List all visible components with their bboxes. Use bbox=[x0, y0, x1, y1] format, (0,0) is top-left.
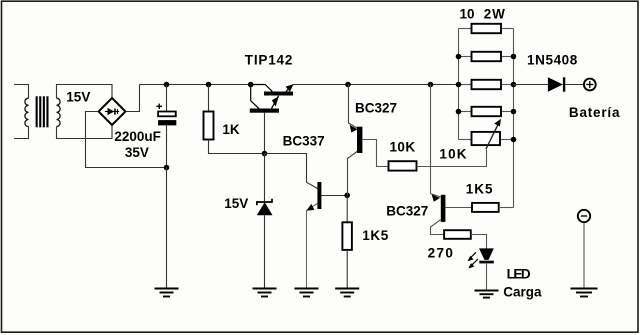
terminal battery plus circle bbox=[584, 79, 596, 91]
transistor Q3 BC327 base bar bbox=[357, 127, 362, 153]
wire 1K bottom to base node bbox=[209, 140, 265, 154]
ground symbol LED bbox=[475, 291, 499, 298]
wire node to 1K5 left top bbox=[346, 196, 348, 223]
svg-text:270: 270 bbox=[428, 245, 455, 260]
svg-text:1N5408: 1N5408 bbox=[527, 53, 578, 68]
transistor Q1 TIP142 inner emitter with arrow bbox=[272, 96, 279, 109]
wire BC327 no2 base to 1K5 right bbox=[445, 207, 472, 209]
terminal battery minus circle bbox=[578, 210, 590, 222]
capacitor C1 positive lead bbox=[166, 85, 168, 112]
svg-text:10: 10 bbox=[460, 7, 475, 22]
wire bank stubs rows bbox=[459, 29, 514, 140]
LED D2 light arrows bbox=[468, 252, 479, 268]
resistor R1 1K lead top bbox=[208, 85, 210, 112]
transistor Q1 TIP142 collector feed diagonals bbox=[251, 85, 273, 109]
svg-text:2W: 2W bbox=[484, 7, 506, 22]
transformer T1 core bbox=[36, 96, 49, 127]
wire ground rail down bbox=[166, 168, 168, 288]
transistor Q1 TIP142 output base bar bbox=[264, 92, 293, 96]
resistor R3 1K5 body left bbox=[342, 222, 352, 250]
wire bridge plus output to rail bbox=[126, 85, 140, 112]
transistor Q1 TIP142 output emitter with arrow to rail bbox=[286, 84, 294, 92]
wire rail to 1N5408 bbox=[514, 84, 548, 86]
node junction dot rail-capacitor bbox=[164, 82, 170, 88]
resistor R1 1K body bbox=[204, 112, 214, 140]
node junction dot rail-TIP142 collector bbox=[248, 82, 254, 88]
svg-text:1K: 1K bbox=[222, 122, 240, 137]
svg-text:10K: 10K bbox=[439, 146, 467, 161]
node dots bank right rail bbox=[511, 54, 517, 60]
resistor R5 270 body bbox=[444, 230, 471, 239]
wire TIP142 base down to node bbox=[264, 113, 266, 154]
ground symbol main filter bbox=[155, 289, 179, 297]
transistor Q3 BC327 emitter wire with arrow bbox=[349, 85, 358, 133]
zener diode Z1 triangle bbox=[257, 202, 273, 215]
transistor Q4 BC327 collector wire bbox=[431, 220, 445, 235]
transistor Q2 BC337 emitter with arrow bbox=[306, 204, 317, 211]
node junction dot rail-1K bbox=[206, 82, 212, 88]
LED D2 cathode bar bbox=[479, 261, 494, 264]
ground symbol BC337 emitter bbox=[295, 289, 319, 297]
capacitor C1 top plate bbox=[158, 112, 176, 117]
wire bridge minus output to ground rail bbox=[86, 112, 167, 168]
svg-text:1K5: 1K5 bbox=[466, 182, 494, 197]
capacitor C1 negative lead bbox=[166, 125, 168, 167]
transistor Q4 BC327 base bar bbox=[441, 195, 446, 222]
capacitor C1 plus sign bbox=[156, 104, 162, 109]
terminal battery plus sign bbox=[586, 81, 593, 88]
svg-text:LED: LED bbox=[507, 267, 531, 282]
wire secondary bottom to bridge bbox=[57, 125, 113, 138]
node dot rail BC327 no2 emitter bbox=[428, 82, 434, 88]
wire secondary top to bridge bbox=[57, 85, 113, 99]
potentiometer 10K body row5 bbox=[472, 132, 501, 145]
svg-text:10K: 10K bbox=[390, 139, 416, 154]
zener diode Z1 bottom lead bbox=[264, 215, 266, 287]
svg-text:Batería: Batería bbox=[569, 105, 620, 120]
transformer T1 primary winding bbox=[25, 98, 29, 126]
svg-text:Carga: Carga bbox=[503, 285, 542, 300]
wire 10K to pot wiper bbox=[417, 150, 487, 167]
resistor bank 10ohm body row2 bbox=[472, 52, 502, 61]
resistor R4 1K5 right body bbox=[472, 203, 499, 212]
potentiometer wiper arrow bbox=[486, 119, 501, 149]
svg-text:TIP142: TIP142 bbox=[245, 53, 293, 68]
wire 270 to LED bbox=[471, 235, 487, 249]
wire main positive rail left section bbox=[140, 84, 251, 86]
svg-text:15V: 15V bbox=[66, 90, 90, 105]
diode D1 cathode bar bbox=[563, 77, 565, 91]
node junction dot rail BC327 no1 emitter bbox=[345, 82, 351, 88]
transistor Q3 BC327 collector wire bbox=[348, 152, 358, 196]
wire BC337 base to node bbox=[321, 195, 347, 197]
wire battery minus to ground bbox=[583, 222, 585, 288]
svg-text:BC327: BC327 bbox=[355, 101, 397, 116]
wire primary top open lead bbox=[14, 85, 29, 99]
resistor bank 10ohm body row1 bbox=[472, 24, 502, 33]
zener diode Z1 cathode bar with ticks bbox=[257, 199, 272, 206]
wire bank left rail bbox=[458, 29, 460, 140]
transistor Q4 BC327 emitter wire from rail with arrow bbox=[431, 85, 441, 202]
node junction dot ground rail bbox=[164, 165, 170, 171]
zener diode Z1 top lead bbox=[264, 154, 266, 202]
wire main rail right section bbox=[293, 84, 459, 86]
transistor Q1 TIP142 input base bar bbox=[250, 109, 279, 113]
terminal battery minus sign bbox=[581, 215, 587, 217]
bridge rectifier B1 inner diode symbol bbox=[105, 108, 119, 115]
wire diode to battery plus bbox=[565, 84, 584, 86]
LED D2 triangle bbox=[479, 248, 494, 260]
wire 1K5 left bottom to ground bbox=[346, 250, 348, 288]
ground symbol 1K5 bbox=[335, 289, 359, 297]
wire LED to ground bbox=[486, 263, 488, 290]
node junction dot BC337 base bbox=[344, 193, 350, 199]
wire base node to BC337 collector bbox=[265, 154, 318, 189]
resistor bank 10ohm body row3 bbox=[472, 80, 502, 89]
svg-text:15V: 15V bbox=[224, 196, 248, 211]
wire primary bottom open lead bbox=[14, 127, 29, 139]
wire 1K5 right to bank right rail bbox=[499, 207, 514, 209]
svg-text:2200uF: 2200uF bbox=[114, 129, 161, 144]
wire BC337 emitter to ground bbox=[306, 210, 308, 287]
ground symbol battery minus bbox=[571, 289, 598, 297]
node dots bank left rail bbox=[456, 54, 462, 60]
resistor bank 10ohm body row4 bbox=[472, 107, 502, 116]
svg-text:BC337: BC337 bbox=[283, 133, 325, 148]
svg-text:BC327: BC327 bbox=[386, 204, 428, 219]
transistor Q2 BC337 base bar bbox=[317, 182, 321, 209]
diode D1 1N5408 triangle bbox=[548, 77, 563, 91]
bridge rectifier B1 diamond bbox=[99, 98, 126, 125]
transformer T1 secondary winding bbox=[57, 98, 61, 126]
resistor R2 10K body bbox=[389, 161, 417, 170]
wire bank right rail bbox=[513, 29, 515, 208]
svg-text:1K5: 1K5 bbox=[362, 228, 389, 243]
wire BC327 no1 base to 10K bbox=[362, 140, 388, 167]
capacitor C1 bottom plate bbox=[158, 120, 176, 125]
node junction dot base node bbox=[262, 151, 268, 157]
ground symbol zener bbox=[253, 289, 277, 297]
svg-text:35V: 35V bbox=[125, 145, 149, 160]
